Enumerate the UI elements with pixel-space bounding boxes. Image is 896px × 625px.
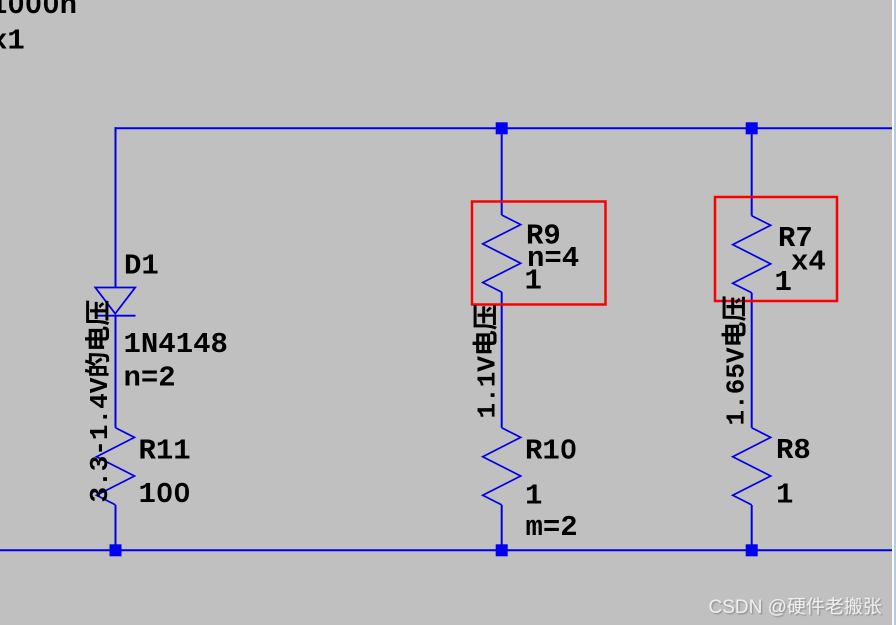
- net label 3.3-1.4V的电压 (vertical, left branch): [85, 301, 115, 503]
- junction bottom middle: [496, 544, 508, 556]
- wire bottom rail: [0, 549, 892, 551]
- resistor R9: [483, 215, 521, 292]
- resistor R10: [483, 428, 521, 505]
- wire left branch lower segment: [115, 505, 117, 551]
- window edge light blue strip: [894, 0, 896, 625]
- junction top right: [746, 122, 758, 134]
- wire right branch upper segment: [751, 128, 753, 215]
- red annotation box around R9: [472, 202, 606, 305]
- svg-text:n=2: n=2: [124, 362, 176, 395]
- svg-text:x1: x1: [0, 25, 25, 58]
- junction bottom right: [746, 544, 758, 556]
- red annotation box around R7: [715, 197, 837, 301]
- svg-text:CSDN @: CSDN @: [709, 597, 787, 618]
- wire right branch lower segment: [751, 505, 753, 551]
- wire middle branch upper segment: [501, 128, 503, 215]
- svg-text:1: 1: [525, 480, 542, 513]
- svg-text:D1: D1: [124, 250, 159, 283]
- window edge white strip: [892, 0, 894, 625]
- svg-text:1.65V: 1.65V: [722, 347, 752, 425]
- svg-text:1000n: 1000n: [0, 0, 77, 22]
- zero glyph counter patches for value labels 1000n / 100 / R10: [13, 0, 19, 7]
- resistor R11: [97, 428, 135, 505]
- svg-text:1: 1: [525, 265, 542, 298]
- svg-text:R11: R11: [139, 434, 191, 467]
- wire right branch middle segment: [751, 293, 753, 428]
- wire middle branch lower segment: [501, 505, 503, 551]
- svg-text:1: 1: [775, 266, 792, 299]
- svg-text:1: 1: [776, 479, 793, 512]
- svg-text:m=2: m=2: [526, 511, 578, 544]
- svg-text:R8: R8: [776, 434, 811, 467]
- junction top middle: [496, 122, 508, 134]
- wire middle branch middle segment: [501, 292, 503, 428]
- svg-text:3.3-1.4V: 3.3-1.4V: [85, 377, 115, 502]
- net label 1.1V电压 (vertical, middle branch): [473, 305, 503, 418]
- svg-text:x4: x4: [791, 246, 826, 279]
- wire left branch middle segment: [115, 316, 117, 428]
- net label 1.65V电压 (vertical, right branch): [722, 296, 752, 425]
- junction bottom left: [110, 544, 122, 556]
- wire top rail: [115, 127, 893, 129]
- resistor R7: [733, 216, 771, 293]
- diode D1: [95, 288, 136, 316]
- wire left branch upper segment: [115, 127, 117, 287]
- resistor R8: [733, 428, 771, 505]
- svg-text:1.1V: 1.1V: [473, 356, 503, 419]
- svg-text:1N4148: 1N4148: [124, 328, 228, 361]
